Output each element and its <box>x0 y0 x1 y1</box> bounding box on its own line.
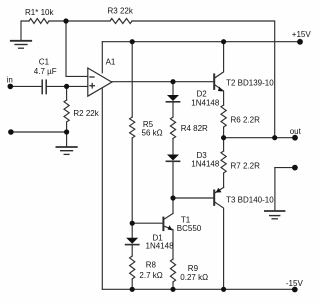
svg-text:-15V: -15V <box>286 279 304 288</box>
svg-text:BC550: BC550 <box>177 224 202 233</box>
svg-text:1N4148: 1N4148 <box>191 159 220 168</box>
svg-text:C1: C1 <box>39 58 50 67</box>
svg-text:R4 82R: R4 82R <box>181 124 208 133</box>
svg-text:1N4148: 1N4148 <box>146 241 175 250</box>
svg-text:out: out <box>290 127 302 136</box>
svg-text:R1* 10k: R1* 10k <box>25 8 54 17</box>
svg-text:D2: D2 <box>197 90 208 99</box>
svg-text:T3 BD140-10: T3 BD140-10 <box>226 196 274 205</box>
svg-text:R3 22k: R3 22k <box>108 6 134 15</box>
svg-text:+15V: +15V <box>292 30 312 39</box>
svg-text:2.7 kΩ: 2.7 kΩ <box>139 271 162 280</box>
svg-text:1N4148: 1N4148 <box>191 98 220 107</box>
svg-text:in: in <box>7 76 13 85</box>
svg-text:0.27 kΩ: 0.27 kΩ <box>180 273 208 282</box>
svg-text:T2 BD139-10: T2 BD139-10 <box>226 79 274 88</box>
svg-text:R9: R9 <box>188 264 199 273</box>
svg-text:R2 22k: R2 22k <box>73 109 99 118</box>
svg-text:4.7 µF: 4.7 µF <box>34 67 57 76</box>
svg-text:R7 2.2R: R7 2.2R <box>231 161 261 170</box>
svg-text:A1: A1 <box>106 57 116 66</box>
svg-text:56 kΩ: 56 kΩ <box>142 129 163 138</box>
svg-text:R6 2.2R: R6 2.2R <box>231 115 261 124</box>
svg-text:R8: R8 <box>146 260 157 269</box>
